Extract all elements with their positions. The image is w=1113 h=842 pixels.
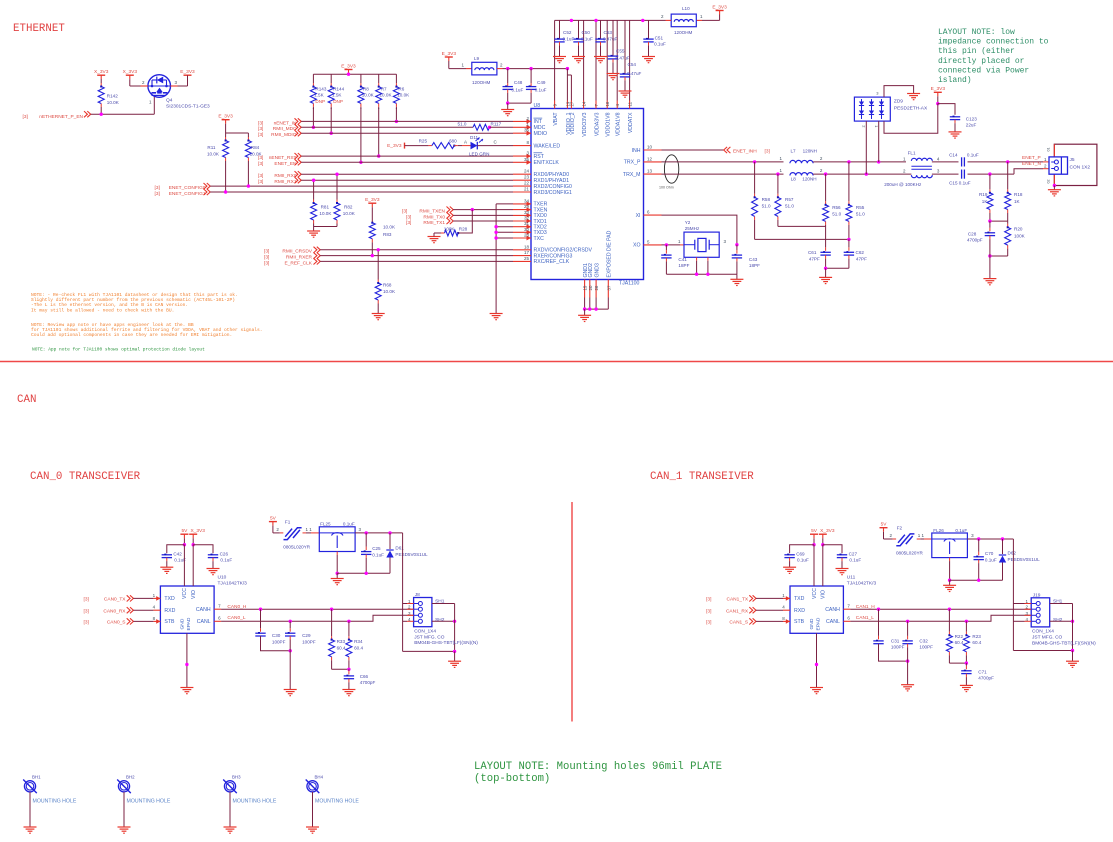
svg-text:C26: C26 xyxy=(220,552,229,557)
wire xtal gnd stem xyxy=(736,274,738,279)
wire c123 wire xyxy=(938,104,955,115)
wire R6 bottom xyxy=(395,108,397,121)
wire fl26 gnd stem xyxy=(949,580,951,585)
wire c48 down xyxy=(507,89,509,93)
wire bank rail xyxy=(313,73,396,75)
junction r28 tap xyxy=(471,208,474,211)
svg-text:CAN0_L: CAN0_L xyxy=(227,615,245,621)
resistor R20 xyxy=(1005,221,1011,256)
svg-text:GND: GND xyxy=(809,618,815,629)
svg-text:E_3V3: E_3V3 xyxy=(387,143,402,149)
wire C26 down xyxy=(212,558,214,562)
wire l9 in xyxy=(449,68,466,70)
pin 19 VDDIO_1 xyxy=(565,101,571,135)
wire C53 drop xyxy=(600,20,602,39)
svg-text:51.0: 51.0 xyxy=(832,212,841,217)
wire GND3 drop xyxy=(595,298,597,310)
transistor Q4 SI2301CDS-T1-GE3 xyxy=(148,75,171,98)
wire C69 jog xyxy=(790,545,814,554)
wire gnd rail xyxy=(585,308,609,310)
svg-text:U11: U11 xyxy=(847,575,856,581)
svg-text:CANH: CANH xyxy=(196,607,211,613)
svg-text:CAN1_L: CAN1_L xyxy=(856,615,874,621)
wire c28 down xyxy=(989,236,991,240)
section separator line xyxy=(0,361,1113,363)
svg-text:R19: R19 xyxy=(979,192,988,197)
junction U10 gnd join xyxy=(185,663,188,666)
wire C51 drop xyxy=(648,20,650,39)
junction r142 bottom xyxy=(100,113,103,116)
wire c70 col b xyxy=(978,560,980,564)
svg-text:ZD9: ZD9 xyxy=(894,98,903,104)
wire q4 d xyxy=(130,85,141,87)
wire vdd col 583.6 xyxy=(583,20,585,100)
pin 6 CANL U10 xyxy=(197,616,221,625)
wire RMII_MDC b xyxy=(490,126,514,128)
resistor R81 xyxy=(311,180,317,226)
off-page connector RMII_RX0 xyxy=(295,171,302,177)
ground C32 ground xyxy=(901,685,914,691)
junction c123 node xyxy=(936,102,939,105)
svg-text:0.1uF: 0.1uF xyxy=(849,558,861,563)
wire r81 rail xyxy=(314,226,337,228)
svg-text:ENET_P: ENET_P xyxy=(1022,155,1041,161)
svg-text:CAN_0 TRANSCEIVER: CAN_0 TRANSCEIVER xyxy=(30,471,141,483)
pin 2 L9 xyxy=(497,68,503,70)
junction enet_p node xyxy=(1006,160,1009,163)
svg-text:VDDA3V3: VDDA3V3 xyxy=(594,112,600,136)
wire C50 drop xyxy=(578,20,580,39)
svg-text:12: 12 xyxy=(647,156,653,161)
wire inh xyxy=(662,149,724,151)
pin 15 GND1 xyxy=(583,263,589,298)
connector J19 CON_1X4 xyxy=(1031,598,1050,627)
svg-text:0.47uF: 0.47uF xyxy=(616,56,630,61)
svg-text:A: A xyxy=(464,139,467,144)
inductor L10 xyxy=(671,14,696,27)
IC U11 TJA1042TK/3 body xyxy=(790,586,843,633)
wire j8 pin4 link xyxy=(403,620,407,622)
wire BH1 stem xyxy=(29,792,31,827)
wire R144 bottom xyxy=(330,108,332,133)
power flag E_3V3 (zd9pwr) xyxy=(931,86,946,104)
svg-text:CANL: CANL xyxy=(197,619,211,625)
svg-text:RXD3/CONFIG1: RXD3/CONFIG1 xyxy=(534,190,572,196)
svg-text:Q4: Q4 xyxy=(166,98,173,104)
svg-text:XO: XO xyxy=(633,243,641,249)
svg-text:CAN0_TX: CAN0_TX xyxy=(104,597,126,603)
svg-text:E_3V3: E_3V3 xyxy=(442,51,457,57)
wire q4 s up xyxy=(187,75,189,86)
wire r28 gnd stem xyxy=(433,233,435,237)
ground C27 ground xyxy=(836,569,849,575)
svg-text:VBAT: VBAT xyxy=(553,112,559,126)
svg-text:R83: R83 xyxy=(383,232,392,237)
svg-text:BH3: BH3 xyxy=(232,775,241,780)
resistor R7 xyxy=(376,74,382,109)
wire c123 down xyxy=(954,120,956,124)
svg-text:C43: C43 xyxy=(749,257,758,262)
svg-text:[3]: [3] xyxy=(706,620,711,626)
wire f2 rail xyxy=(950,579,1003,581)
wire c32 col xyxy=(907,636,909,640)
ground BH3 ground xyxy=(224,827,237,833)
svg-text:[3]: [3] xyxy=(258,173,263,179)
shield pin top J5 xyxy=(1053,144,1055,157)
svg-text:36: 36 xyxy=(524,128,530,133)
svg-text:100K: 100K xyxy=(444,227,456,232)
wire can1h xyxy=(850,608,1031,610)
svg-text:4700pF: 4700pF xyxy=(978,676,994,681)
wire vdd col 617.2 xyxy=(616,20,618,100)
connector J5 CON 1X2 shield outline xyxy=(1054,144,1097,185)
svg-text:TJA1100: TJA1100 xyxy=(619,281,639,287)
svg-text:nETHERNET_P_EN: nETHERNET_P_EN xyxy=(39,114,83,120)
svg-text:R23: R23 xyxy=(972,634,981,639)
svg-text:C49: C49 xyxy=(537,80,546,85)
off-page connector RMII_CRSDV xyxy=(314,247,321,253)
capacitor C28 xyxy=(985,233,995,236)
wire sh2 xyxy=(432,620,455,622)
junction r23 join xyxy=(965,661,968,664)
svg-text:R11: R11 xyxy=(207,145,216,150)
svg-text:60.4: 60.4 xyxy=(337,646,346,651)
svg-text:C27: C27 xyxy=(849,552,858,557)
svg-text:L9: L9 xyxy=(474,56,480,61)
power flag E_3V3 (bank) xyxy=(341,63,356,74)
capacitor C31 xyxy=(873,641,883,644)
svg-text:[3]: [3] xyxy=(258,161,263,167)
wire zd9 bottom loop xyxy=(884,104,938,134)
svg-text:R33: R33 xyxy=(337,639,346,644)
pin 35 EN/TXCLK xyxy=(513,157,559,166)
ground C71 ground xyxy=(960,685,973,691)
svg-text:island): island) xyxy=(938,76,972,85)
capacitor C123 xyxy=(950,117,960,120)
svg-text:120OHM: 120OHM xyxy=(674,30,693,35)
svg-text:30: 30 xyxy=(524,227,530,232)
svg-text:[3]: [3] xyxy=(155,185,160,191)
wire shield bottom xyxy=(403,650,455,652)
wire BH2 stem xyxy=(123,792,125,827)
svg-text:10.0K: 10.0K xyxy=(397,93,410,98)
svg-text:1K: 1K xyxy=(1014,199,1021,204)
wire trxm a xyxy=(662,173,784,175)
svg-text:R7: R7 xyxy=(381,86,387,91)
svg-text:[3]: [3] xyxy=(264,255,269,261)
resistor R55 xyxy=(846,162,852,240)
svg-text:R55: R55 xyxy=(856,205,865,210)
capacitor C43 xyxy=(732,255,742,258)
resistor R33 xyxy=(329,609,335,669)
svg-text:BM04B-GHS-TBT(LF)(SN)(N): BM04B-GHS-TBT(LF)(SN)(N) xyxy=(414,640,478,646)
svg-text:C54: C54 xyxy=(628,62,637,67)
capacitor C50 xyxy=(573,39,583,42)
off-page connector CAN0_S xyxy=(127,618,134,624)
wire f2 in xyxy=(893,538,897,540)
common-mode choke FL1 xyxy=(911,158,932,177)
resistor R8 xyxy=(358,74,364,109)
svg-text:U10: U10 xyxy=(218,575,227,581)
pin 4 RXD U10 xyxy=(153,605,176,614)
power flag E_3V3 (r11) xyxy=(218,114,233,134)
svg-text:60.4: 60.4 xyxy=(955,640,964,645)
svg-text:RXD: RXD xyxy=(164,608,175,614)
svg-text:CON_1X4: CON_1X4 xyxy=(414,629,436,635)
svg-text:100 Ohm: 100 Ohm xyxy=(659,185,674,189)
wire q4 s xyxy=(178,85,188,87)
pin 34 TXER xyxy=(513,198,548,207)
pin 2 Q4 xyxy=(141,85,148,87)
junction c48 top xyxy=(506,67,509,70)
svg-text:0.1uF: 0.1uF xyxy=(512,88,524,93)
wire trxm d xyxy=(968,173,1015,175)
pin 18 RXDV/CONFIG2/CRSDV xyxy=(513,244,593,253)
ground C48 ground xyxy=(501,110,514,116)
svg-text:33: 33 xyxy=(524,210,530,215)
pin 27 VDDIO_2 xyxy=(569,101,575,135)
wire can0l xyxy=(221,615,414,621)
IC U8 TJA1100 body xyxy=(531,109,644,280)
svg-text:0805L020YR: 0805L020YR xyxy=(896,551,924,556)
wire c29 bot xyxy=(289,636,291,640)
wire trxp d xyxy=(968,161,1044,163)
svg-text:LAYOUT NOTE: Mounting holes 96: LAYOUT NOTE: Mounting holes 96mil PLATE xyxy=(474,761,722,773)
capacitor C27 xyxy=(837,555,847,558)
svg-text:RMII_TX0: RMII_TX0 xyxy=(423,214,445,220)
svg-text:C42: C42 xyxy=(173,552,182,557)
wire j19 gnd stem xyxy=(1072,651,1074,662)
svg-text:[3]: [3] xyxy=(706,597,711,603)
svg-text:13: 13 xyxy=(647,169,653,174)
wire c61 down xyxy=(825,255,827,259)
junction zd9 m xyxy=(865,172,868,175)
ground J19 ground xyxy=(1066,661,1079,667)
svg-text:Y2: Y2 xyxy=(685,220,691,225)
junction R8 join xyxy=(359,161,362,164)
svg-text:E_3V3: E_3V3 xyxy=(180,69,195,75)
svg-text:5V: 5V xyxy=(181,528,188,534)
svg-text:VCC: VCC xyxy=(812,588,818,599)
wire RMII_TX0 xyxy=(453,214,513,216)
svg-text:32: 32 xyxy=(524,216,530,221)
svg-text:18: 18 xyxy=(524,244,530,249)
wire C51 down xyxy=(648,42,650,46)
junction gnd3 rail xyxy=(594,307,597,310)
wire c31 col xyxy=(878,636,880,640)
svg-text:RXD: RXD xyxy=(794,608,805,614)
junction rail c xyxy=(641,19,644,22)
wire U11 gnd stem xyxy=(816,633,818,687)
svg-text:ENET_EN: ENET_EN xyxy=(274,161,297,167)
svg-text:DNP: DNP xyxy=(333,99,343,104)
svg-text:[3]: [3] xyxy=(155,191,160,197)
svg-text:SH2: SH2 xyxy=(435,617,445,623)
svg-text:C14: C14 xyxy=(949,152,958,157)
svg-text:BH2: BH2 xyxy=(126,775,135,780)
connector J5 CON 1X2 xyxy=(1049,157,1068,174)
svg-text:R144: R144 xyxy=(333,86,344,91)
svg-text:20: 20 xyxy=(588,285,593,290)
wire R8 bottom xyxy=(360,108,362,162)
svg-text:10.0K: 10.0K xyxy=(319,211,332,216)
pin 5 XO xyxy=(633,239,662,248)
ground FL26 ground xyxy=(943,585,956,591)
resistor R25 xyxy=(432,143,455,149)
wire c28 rail xyxy=(990,255,1008,257)
pin 13 TRX_M xyxy=(623,169,662,178)
svg-text:E_3V3: E_3V3 xyxy=(712,4,727,10)
wire c28 up xyxy=(989,228,991,232)
capacitor C66 xyxy=(344,676,354,679)
off-page connector nETHERNET_P_EN xyxy=(84,111,91,117)
wire vddio1 col xyxy=(566,69,568,101)
svg-text:It may still be allowed - need: It may still be allowed - need to check … xyxy=(31,307,174,313)
svg-text:-The L is the ethernet version: -The L is the ethernet version, and the … xyxy=(31,302,188,308)
pin 3 Q4 xyxy=(171,85,178,87)
pin 8 STB U10 xyxy=(153,616,175,625)
svg-text:35: 35 xyxy=(524,157,530,162)
pin 3 RST xyxy=(513,151,545,160)
pin 1 MDC xyxy=(513,122,546,131)
svg-text:VIO: VIO xyxy=(191,590,197,599)
svg-text:18PF: 18PF xyxy=(678,263,689,268)
svg-text:SH2: SH2 xyxy=(1053,617,1063,623)
capacitor C62 xyxy=(844,252,854,255)
junction r33 top xyxy=(330,608,333,611)
wire vdd col 607.2 xyxy=(606,20,608,100)
junction c25 top xyxy=(365,531,368,534)
svg-text:nENET_IN: nENET_IN xyxy=(274,120,297,126)
junction r55 top xyxy=(847,160,850,163)
TVS diode D61 PESD5V0S1UL xyxy=(386,533,393,573)
svg-text:EPAD: EPAD xyxy=(816,617,822,630)
junction U11 vio node xyxy=(821,543,824,546)
svg-text:PESD5V0S1UL: PESD5V0S1UL xyxy=(395,552,428,557)
resistor R19 xyxy=(987,174,993,221)
junction enet_n node xyxy=(988,172,991,175)
resistor R117 xyxy=(473,124,491,130)
filter FL26 xyxy=(932,533,968,558)
svg-text:INH: INH xyxy=(632,148,641,154)
junction U11 vcc node xyxy=(812,543,815,546)
junction c61 rail xyxy=(824,267,827,270)
wire c41 top stub xyxy=(665,250,667,254)
ground U11 ground xyxy=(810,688,823,694)
svg-text:TXD: TXD xyxy=(164,596,175,602)
mounting hole BH2 xyxy=(117,775,171,805)
svg-text:R143: R143 xyxy=(315,86,326,91)
capacitor C32 xyxy=(902,641,912,644)
ground C42 ground xyxy=(160,567,173,573)
svg-text:[3]: [3] xyxy=(23,114,28,120)
wire r28 a xyxy=(441,232,445,234)
svg-text:22: 22 xyxy=(524,181,530,186)
svg-text:GND: GND xyxy=(179,618,185,629)
off-page connector CAN1_TX xyxy=(749,595,756,601)
fuse F1 0805L020YR xyxy=(284,528,302,540)
svg-text:C66: C66 xyxy=(360,674,369,679)
junction r55 rail xyxy=(847,238,850,241)
wire C55 down xyxy=(612,59,614,63)
junction shield corner j19 xyxy=(1071,649,1074,652)
svg-text:FL1: FL1 xyxy=(908,151,916,156)
svg-text:0.1uF: 0.1uF xyxy=(955,528,967,533)
svg-text:[3]: [3] xyxy=(258,126,263,132)
wire gate drop xyxy=(153,95,155,114)
wire C54 drop xyxy=(624,20,626,74)
ground C54 ground xyxy=(619,91,632,97)
svg-text:R25: R25 xyxy=(419,138,428,143)
svg-text:RMII_RXER: RMII_RXER xyxy=(286,255,313,261)
capacitor C51 xyxy=(643,39,653,42)
wire RMII_TX1 xyxy=(453,220,513,222)
wire c43 top stub xyxy=(736,250,738,254)
svg-text:RMII_TX1: RMII_TX1 xyxy=(423,220,445,226)
ground R68 ground xyxy=(372,314,385,320)
wire shield gnd stem xyxy=(454,651,456,661)
svg-text:0.1uF: 0.1uF xyxy=(654,41,666,46)
svg-text:FL25: FL25 xyxy=(320,522,331,527)
svg-text:[3]: [3] xyxy=(84,609,89,615)
resistor R34 xyxy=(346,621,352,669)
svg-text:C41: C41 xyxy=(678,257,687,262)
svg-text:C52: C52 xyxy=(563,30,572,35)
svg-text:C61: C61 xyxy=(808,250,817,255)
ground C50 ground xyxy=(572,57,585,63)
svg-text:E_3V3: E_3V3 xyxy=(218,114,233,120)
svg-text:CAN1_S: CAN1_S xyxy=(729,620,748,626)
off-page connector CAN0_TX xyxy=(127,595,134,601)
wire xi wire xyxy=(662,215,737,245)
wire 5v feed can1 xyxy=(1012,539,1014,651)
svg-text:C29: C29 xyxy=(302,633,311,638)
svg-text:01: 01 xyxy=(1047,148,1051,152)
svg-text:C31: C31 xyxy=(891,638,900,643)
wire txc row xyxy=(496,237,513,239)
wire txd3 row xyxy=(496,231,513,233)
svg-text:JST MFG. CO: JST MFG. CO xyxy=(1032,635,1063,641)
wire C26 jog xyxy=(193,545,213,554)
ground C26 ground xyxy=(207,569,220,575)
mounting hole BH1 xyxy=(23,775,77,805)
svg-text:10.0K: 10.0K xyxy=(107,100,120,105)
wire C50 down xyxy=(578,42,580,46)
junction R7 join xyxy=(377,154,380,157)
svg-text:this pin (either: this pin (either xyxy=(938,47,1015,56)
wire C52 drop xyxy=(559,20,561,39)
wire top rail xyxy=(555,19,666,21)
svg-text:MOUNTING HOLE: MOUNTING HOLE xyxy=(127,799,171,805)
svg-text:R58: R58 xyxy=(762,197,771,202)
ground C69 ground xyxy=(783,567,796,573)
svg-text:L7: L7 xyxy=(791,149,797,154)
capacitor C69 xyxy=(784,555,794,558)
pin 30 TXD3 xyxy=(513,227,547,236)
wire ENET_CONFIG0 xyxy=(210,185,513,187)
junction gnd2 rail xyxy=(588,307,591,310)
svg-text:RMII_MDIO: RMII_MDIO xyxy=(271,132,297,138)
junction r19 bot xyxy=(988,219,991,222)
wire r81 gnd stem xyxy=(313,227,315,232)
resistor R11 xyxy=(223,133,229,192)
wire trxm c xyxy=(932,173,959,175)
TVS diode ZD9 PESD2ETH-AX xyxy=(854,97,890,121)
svg-text:TRX_P: TRX_P xyxy=(624,160,641,166)
wire fl25 stub xyxy=(336,552,338,556)
pin 33 TXD0 xyxy=(513,210,547,219)
wire c70 col a xyxy=(978,552,980,556)
